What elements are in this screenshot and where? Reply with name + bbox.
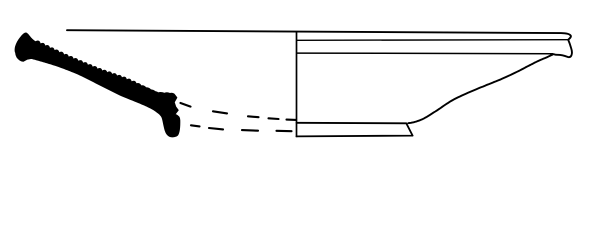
upper dashed projection line [181, 103, 297, 120]
rim band line 2 [297, 39, 568, 42]
rim band line 3 [297, 52, 554, 55]
rim top line and right exterior profile (top line, rim edge, underside, wall) [67, 30, 572, 123]
vessel section (left half, filled black: rim knob, ribbed wall, broken foot) [15, 33, 180, 137]
lower dashed projection line [191, 125, 292, 131]
base outline: top edge, step, bottom edge [297, 123, 413, 137]
centre axis line [296, 31, 298, 137]
